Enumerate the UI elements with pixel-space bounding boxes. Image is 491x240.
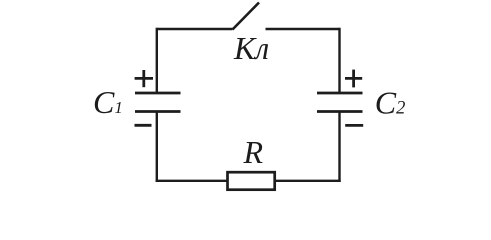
label C2 [375,85,406,121]
wire right vertical upper [338,28,340,93]
wire top-left segment [157,28,233,30]
switch Кл blade [233,3,260,30]
polarity minus of C2 [345,124,363,127]
polarity minus of C1 [135,124,152,127]
svg-text:R: R [243,134,264,170]
capacitor C1 plates [135,93,181,112]
label Кл of switch [233,30,269,66]
label R [243,134,264,170]
label C1 [93,84,123,120]
polarity plus of C2 [345,70,362,88]
polarity plus of C1 [135,70,153,87]
svg-text:C1: C1 [93,84,123,120]
wire left vertical lower [156,112,158,183]
svg-text:C2: C2 [375,85,406,121]
wire bottom-right segment [275,180,341,182]
wire right vertical lower [338,112,340,183]
wire top-right segment [266,28,340,30]
svg-text:Кл: Кл [233,30,269,66]
capacitor C2 plates [317,93,363,112]
resistor R body [228,172,275,190]
wire bottom-left segment [156,180,228,182]
wire left vertical upper [156,28,158,93]
